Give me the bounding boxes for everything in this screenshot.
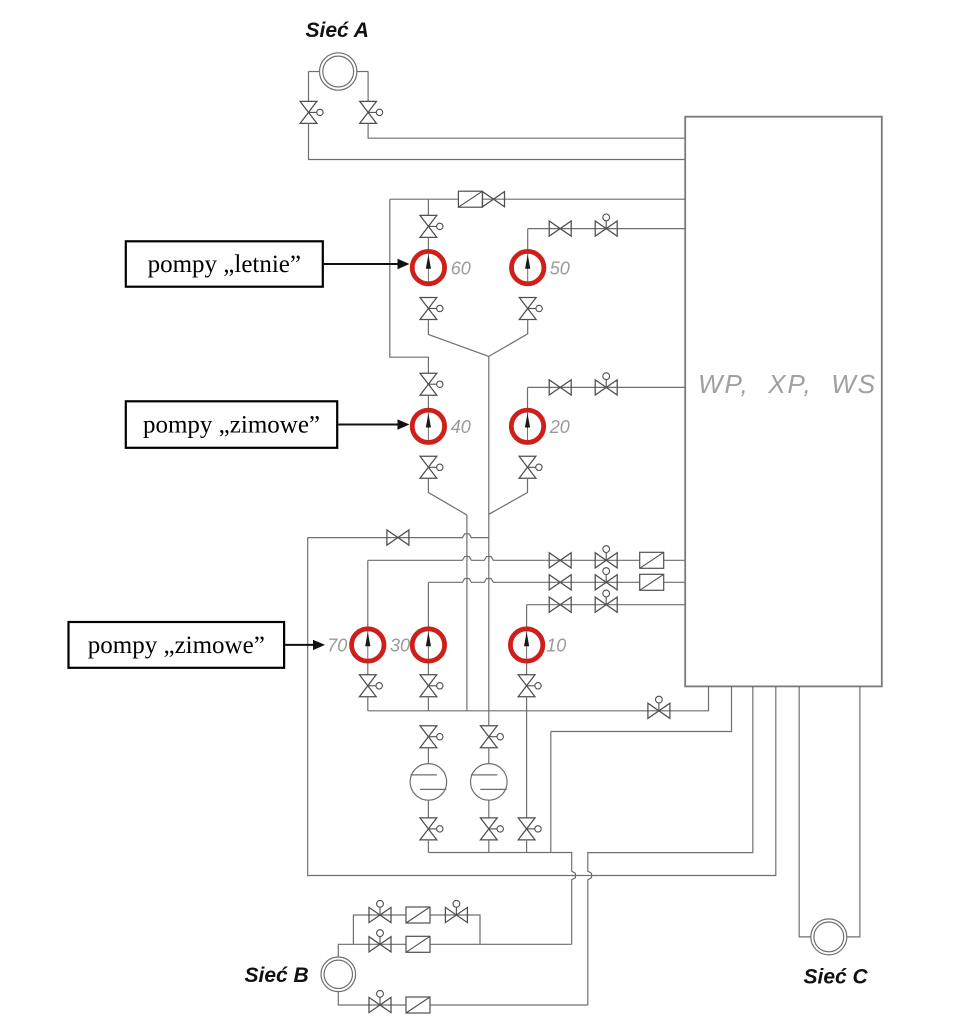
wire [309,72,320,102]
valve on pump 50 branch [549,221,571,236]
svg-text:40: 40 [451,417,471,437]
wire, row 2 [368,557,685,561]
wire, net B row 2 [338,944,571,957]
wire [309,123,686,159]
svg-text:Sieć B: Sieć B [245,964,309,987]
meter A [410,764,447,801]
label 60 [451,258,471,278]
net label Sieć A [306,19,369,42]
wire, box link 2 [588,686,753,1005]
valve above meter B [480,726,503,748]
wire [427,697,429,711]
wire [367,663,369,675]
wire, pump 10 drop [526,711,528,818]
svg-text:Sieć A: Sieć A [306,19,369,42]
wire [847,686,860,937]
wire, pump 50 branch [528,228,686,230]
wire [526,605,528,627]
wire, long return run [308,538,776,876]
wire [427,237,429,251]
wire [427,840,429,853]
wire, suction header [368,686,709,710]
pump 30 [412,627,444,663]
valve below pump 30 [420,675,443,697]
label 40 [451,417,471,437]
svg-text:70: 70 [327,636,347,656]
wire, riser to lower header [466,515,468,711]
wire [428,478,467,515]
strainer on row 2 [640,552,664,568]
flow meter, network B [321,957,356,992]
wire [367,560,369,626]
wire, row to centre riser [308,534,489,538]
wire [488,748,490,764]
wire [488,800,490,818]
control valve on pump 50 branch [595,214,617,236]
label 10 [546,636,566,656]
svg-text:20: 20 [549,417,570,437]
valve above pump 60 [420,215,443,237]
svg-text:30: 30 [390,636,410,656]
wire, net B row 3 [338,992,588,1005]
wire [428,320,488,357]
wire [427,199,429,215]
valve on upper header [483,192,505,207]
wire, left riser [390,199,429,373]
strainer on upper header [458,191,482,207]
valve below meter B [480,818,503,840]
wire, row 4 [527,604,686,606]
svg-text:pompy „letnie”: pompy „letnie” [148,251,301,278]
valve on row 3 [549,575,571,590]
label WP XP WS [698,369,877,399]
valve on pump 10 drop [518,818,541,840]
control valve 2 on bypass row [445,900,467,922]
wire [526,697,528,711]
svg-text:50: 50 [550,258,570,278]
meter B [471,764,508,801]
valve on row 2 [549,553,571,568]
wire, row 3 [428,579,685,583]
callout pompy zimowe lower [69,622,326,668]
wire [526,663,528,675]
strainer on row 3 [640,574,664,590]
wire [427,748,429,764]
svg-text:pompy „zimowe”: pompy „zimowe” [88,632,265,659]
net label Sieć B [245,964,309,987]
valve below pump 10 [518,675,541,697]
valve on pump 20 branch [549,380,571,395]
wire [527,387,529,408]
svg-text:60: 60 [451,258,471,278]
wire [799,686,811,937]
valve on row 4 [549,597,571,612]
wire, box drop 1 [550,732,552,853]
wire [488,840,490,853]
wire [427,800,429,818]
wire [489,320,528,357]
flow meter, network A [320,53,357,90]
wire [357,72,368,102]
wire [526,840,528,853]
pump 70 [352,627,384,663]
control valve on row 3 [595,568,617,590]
valve below meter A [420,818,443,840]
pump 60 [412,250,444,286]
valve on cross row [387,530,409,545]
control valve on pump 20 branch [595,373,617,395]
valve, net A right [360,101,383,123]
wire, box link 1 [551,686,732,731]
pump 20 [511,408,543,444]
callout pompy zimowe upper [126,401,410,448]
net label Sieć C [804,966,869,989]
wire, net B bypass row [353,915,480,944]
wire [489,478,528,514]
control valve on row 4 [595,590,617,612]
valve below pump 40 [420,456,443,478]
wire [427,395,429,408]
valve below pump 70 [359,675,382,697]
svg-text:Sieć C: Sieć C [804,966,869,989]
pump 50 [512,250,544,286]
wire, centre riser [488,356,490,725]
callout pompy letnie [126,241,410,286]
control valve on suction header [648,696,670,718]
label 70 [327,636,347,656]
control valve on net B row 2 [369,930,391,952]
strainer on net B row 2 [406,936,430,952]
label 50 [550,258,570,278]
label 20 [549,417,570,437]
svg-text:WP, XP, WS: WP, XP, WS [698,369,877,399]
control valve on net B row 3 [369,990,391,1012]
wire, upper header [390,198,685,200]
valve above pump 40 [420,373,443,395]
valve below pump 60 [420,298,443,320]
svg-text:pompy „zimowe”: pompy „zimowe” [143,412,320,439]
pump 40 [412,408,444,444]
wire [427,582,429,627]
wire [527,229,529,252]
control valve on row 2 [595,546,617,568]
strainer on net B row 3 [406,997,430,1013]
wire, pump 20 branch [528,386,686,388]
valve, net A left [300,101,323,123]
wire [367,697,369,711]
valve below pump 50 [519,298,542,320]
flow meter, network C [811,919,847,955]
label 30 [390,636,410,656]
control valve on bypass row [369,900,391,922]
valve below pump 20 [519,456,542,478]
wire, meter header to net B [428,853,575,945]
valve above meter A [420,726,443,748]
wire [427,663,429,675]
svg-text:10: 10 [546,636,566,656]
strainer on bypass row [406,907,430,923]
pump 10 [510,627,542,663]
wire [368,123,685,138]
heat-exchanger unit WP XP WS [685,117,882,687]
